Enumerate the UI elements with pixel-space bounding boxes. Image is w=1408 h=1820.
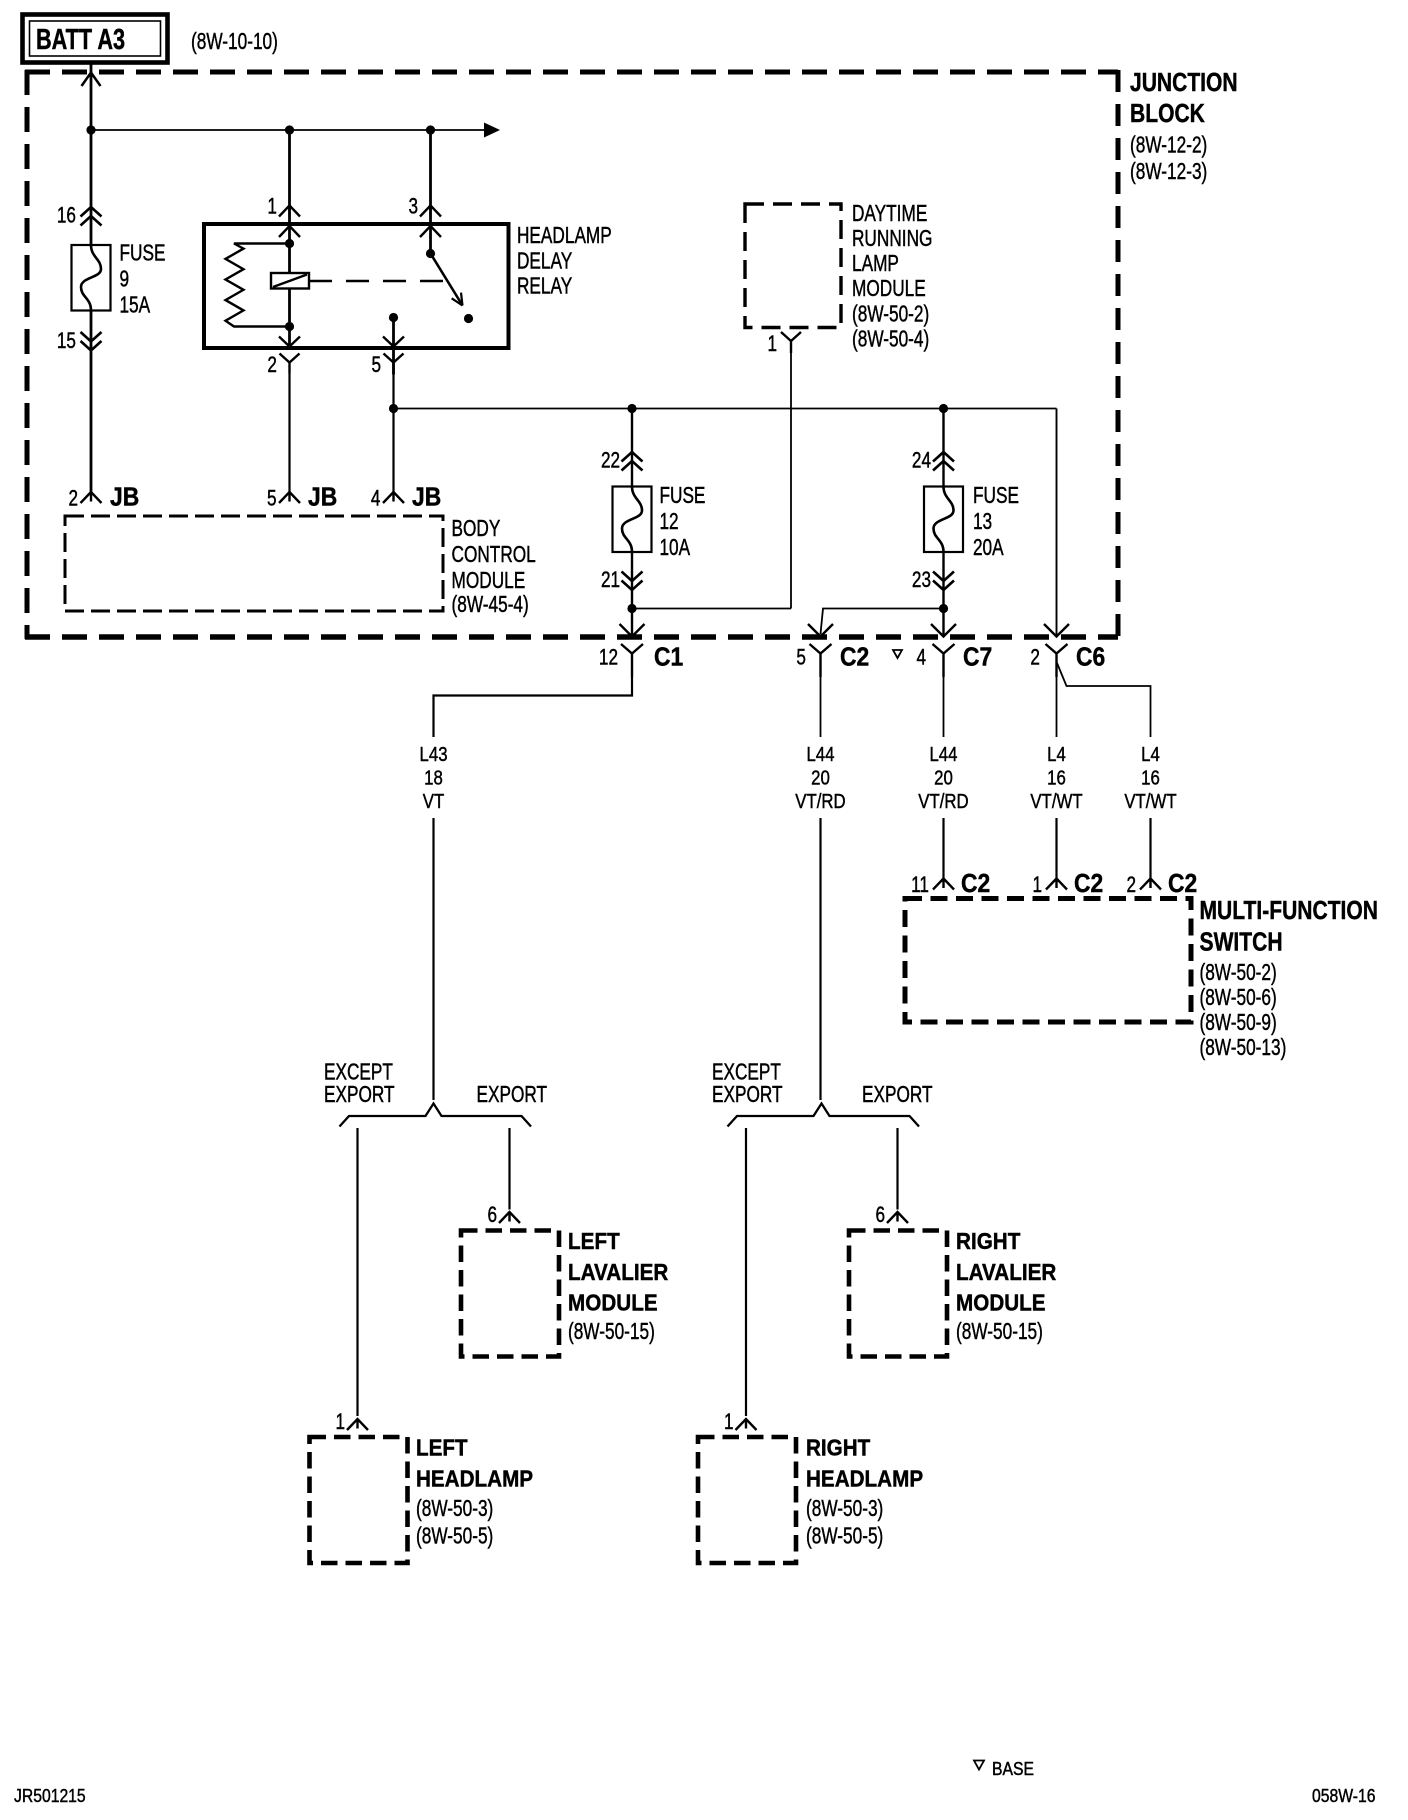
svg-text:1: 1 [335, 1410, 345, 1435]
left headlamp pin 1 connector [347, 1419, 368, 1430]
svg-text:C6: C6 [1076, 643, 1105, 672]
pin 21 label [601, 568, 620, 593]
svg-text:5: 5 [267, 487, 277, 512]
svg-text:(8W-50-13): (8W-50-13) [1199, 1036, 1286, 1061]
svg-text:SWITCH: SWITCH [1200, 929, 1283, 958]
connector grommet pin 16 [81, 207, 102, 226]
JB pin 4 label [371, 483, 441, 512]
wire export to right lavalier [896, 1128, 898, 1210]
fuse F9 [72, 245, 111, 311]
node relay common pin 5 [389, 313, 398, 322]
connector C6 pin 2 [1044, 624, 1069, 677]
svg-text:C2: C2 [1168, 870, 1197, 899]
svg-text:23: 23 [912, 568, 931, 593]
svg-text:(8W-50-5): (8W-50-5) [416, 1524, 493, 1549]
node relay coil top [285, 239, 294, 248]
svg-text:MODULE: MODULE [956, 1289, 1046, 1316]
MFS pin 1 connector [1046, 879, 1067, 890]
svg-text:DAYTIME: DAYTIME [852, 202, 927, 227]
right headlamp label [806, 1434, 923, 1549]
svg-text:LEFT: LEFT [416, 1434, 468, 1461]
svg-text:9: 9 [119, 267, 129, 292]
connector C2 pin 5 [808, 624, 833, 677]
svg-text:JB: JB [412, 483, 441, 512]
left headlamp box [310, 1437, 408, 1563]
svg-text:FUSE: FUSE [119, 241, 165, 266]
svg-text:VT: VT [423, 789, 445, 812]
left headlamp pin 1 label [335, 1410, 345, 1435]
label EXPORT right [862, 1083, 933, 1108]
wire bus to relay pin 3 [429, 130, 432, 224]
wire C2 down [820, 677, 822, 737]
svg-text:5: 5 [796, 646, 806, 671]
svg-text:12: 12 [599, 646, 618, 671]
svg-text:2: 2 [1030, 646, 1040, 671]
svg-text:RELAY: RELAY [517, 274, 573, 299]
node bus at relay pin 3 [426, 125, 435, 134]
wire DRL pin 1 to fuse 12 output [790, 353, 792, 609]
svg-text:MODULE: MODULE [568, 1289, 658, 1316]
relay coil symbol [271, 273, 309, 289]
svg-text:JUNCTION: JUNCTION [1130, 69, 1238, 98]
pin 5 label [371, 353, 381, 378]
svg-text:JB: JB [110, 483, 139, 512]
MFS pin 1 label [1032, 870, 1103, 899]
wire except-export to right headlamp [745, 1128, 747, 1416]
JB pin 4 connector [383, 492, 404, 503]
svg-text:C2: C2 [1074, 870, 1103, 899]
JB pin 5 connector [279, 492, 300, 503]
fuse 12 value label [659, 484, 705, 561]
svg-text:13: 13 [973, 510, 992, 535]
wire VT/RD to MFS pin 11 [942, 818, 944, 879]
svg-text:(8W-10-10): (8W-10-10) [191, 30, 278, 55]
wire label L4 16 VT/WT right [1124, 742, 1177, 812]
svg-text:RIGHT: RIGHT [806, 1434, 871, 1461]
svg-text:(8W-12-3): (8W-12-3) [1130, 160, 1207, 185]
svg-text:RIGHT: RIGHT [956, 1228, 1021, 1255]
svg-text:MODULE: MODULE [452, 569, 526, 594]
svg-text:MODULE: MODULE [852, 277, 926, 302]
wire fuse 13 to node [942, 552, 944, 637]
wire label L4 16 VT/WT left [1030, 742, 1083, 812]
wire battery feed into junction block [82, 63, 101, 131]
right lavalier module label [956, 1228, 1056, 1345]
svg-text:16: 16 [1141, 766, 1160, 789]
sheet number JR501215 [14, 1785, 86, 1807]
right lavalier pin 6 label [875, 1203, 885, 1228]
svg-text:1: 1 [767, 332, 777, 357]
fuse 13 value label [973, 484, 1019, 561]
svg-text:4: 4 [371, 487, 381, 512]
svg-text:(8W-45-4): (8W-45-4) [452, 593, 529, 618]
svg-text:DELAY: DELAY [517, 249, 573, 274]
relay pin 5 connector [384, 354, 404, 374]
relay pin 2 connector [280, 354, 300, 374]
svg-text:(8W-50-3): (8W-50-3) [416, 1497, 493, 1522]
daytime running lamp module label [852, 202, 932, 352]
body control module label [452, 517, 536, 618]
wire VT/RD down to split [819, 818, 821, 1100]
pin 15 label [57, 329, 76, 354]
wire VT/WT to MFS pin 2 [1149, 818, 1151, 879]
relay pin 1 connector [279, 206, 300, 217]
svg-text:LAMP: LAMP [852, 252, 899, 277]
MFS pin 11 label [911, 870, 990, 899]
svg-text:VT/WT: VT/WT [1030, 789, 1083, 812]
wire C6 branch to second VT/WT [1057, 663, 1151, 737]
svg-text:LAVALIER: LAVALIER [956, 1259, 1056, 1286]
wire power bus B+ [91, 123, 500, 138]
svg-text:EXPORT: EXPORT [862, 1083, 933, 1108]
svg-text:(8W-50-4): (8W-50-4) [852, 327, 929, 352]
wire fuse 12 to node [631, 552, 633, 637]
multi-function switch label [1199, 897, 1377, 1061]
svg-text:BATT A3: BATT A3 [36, 24, 125, 56]
svg-text:12: 12 [659, 510, 678, 535]
wire fuse 9 to JB pin 2 [90, 311, 93, 493]
svg-text:EXPORT: EXPORT [324, 1083, 395, 1108]
wire feed bus to fuses 12 13 and C6 [394, 409, 1057, 637]
pin 1 label [267, 195, 277, 220]
svg-text:24: 24 [912, 449, 931, 474]
wire VT down to split [432, 818, 434, 1100]
node bus at relay pin 1 [285, 125, 294, 134]
relay pin 2 exit chevron [279, 337, 300, 347]
connector grommet pin 21 [622, 572, 643, 591]
svg-text:3: 3 [408, 195, 418, 220]
wire relay pin 2 to JB pin 5 [288, 374, 290, 493]
body control module box [65, 516, 443, 611]
svg-text:BODY: BODY [452, 517, 501, 542]
C6 label [1030, 643, 1105, 672]
svg-text:(8W-50-9): (8W-50-9) [1199, 1011, 1276, 1036]
resistor inside relay [226, 244, 290, 327]
svg-text:HEADLAMP: HEADLAMP [517, 224, 612, 249]
battery feed box BATT A3 [23, 15, 168, 63]
svg-text:C7: C7 [963, 643, 992, 672]
svg-text:L4: L4 [1141, 742, 1160, 765]
split brace left group [340, 1104, 532, 1127]
wire C1 to left branch [434, 677, 633, 737]
svg-text:16: 16 [1047, 766, 1066, 789]
svg-text:1: 1 [1032, 873, 1042, 898]
svg-text:15: 15 [57, 329, 76, 354]
svg-text:CONTROL: CONTROL [452, 543, 536, 568]
junction block dashed boundary [25, 70, 1118, 639]
node relay coil bottom [285, 322, 294, 331]
svg-text:L44: L44 [929, 742, 957, 765]
node feed at relay pin5 column [389, 404, 398, 413]
svg-text:FUSE: FUSE [973, 484, 1019, 509]
wire export to left lavalier [508, 1128, 510, 1210]
pin 16 label [57, 204, 76, 229]
wire except-export to left headlamp [356, 1128, 358, 1416]
multi-function switch box [905, 899, 1191, 1023]
C7 label with base marker [893, 643, 992, 672]
connector C7 pin 4 [931, 624, 956, 677]
svg-text:LEFT: LEFT [568, 1228, 620, 1255]
wire feed to fuse 12 [631, 409, 633, 487]
svg-text:LAVALIER: LAVALIER [568, 1259, 668, 1286]
wire C6 down [1056, 668, 1058, 737]
JB pin 2 label [68, 483, 139, 512]
relay pin 3 connector [420, 206, 441, 217]
svg-text:EXCEPT: EXCEPT [712, 1060, 781, 1085]
left headlamp label [416, 1434, 533, 1549]
JB pin 5 label [267, 483, 337, 512]
svg-text:C1: C1 [654, 643, 683, 672]
relay switch blade [431, 254, 463, 306]
left lavalier module label [568, 1228, 668, 1345]
pin 3 label [408, 195, 418, 220]
svg-text:22: 22 [601, 449, 620, 474]
node relay switch pivot [426, 249, 435, 258]
fuse 9 value label [119, 241, 165, 318]
svg-text:1: 1 [724, 1410, 734, 1435]
svg-text:L4: L4 [1047, 742, 1066, 765]
junction block label [1130, 69, 1238, 185]
node fuse 12 output [627, 604, 636, 613]
right lavalier pin 6 connector [887, 1212, 908, 1223]
MFS pin 2 connector [1140, 879, 1161, 890]
svg-text:MULTI-FUNCTION: MULTI-FUNCTION [1200, 897, 1378, 926]
svg-text:16: 16 [57, 204, 76, 229]
svg-text:RUNNING: RUNNING [852, 227, 932, 252]
connector grommet pin 24 [933, 452, 954, 471]
left lavalier module box [461, 1231, 559, 1357]
wire fuse 13 output to C2 [821, 609, 944, 635]
daytime running lamp module box [745, 204, 841, 328]
node bus at battery column [86, 125, 95, 134]
svg-text:20: 20 [934, 766, 953, 789]
connector grommet pin 23 [933, 572, 954, 591]
wire feed to fuse 13 [942, 409, 944, 487]
node feed at fuse 13 [939, 404, 948, 413]
fuse F13 [924, 487, 963, 553]
wire battery column to fuse 9 [90, 130, 93, 245]
svg-text:HEADLAMP: HEADLAMP [416, 1465, 533, 1492]
wire relay pin 5 down [383, 318, 404, 375]
svg-text:6: 6 [487, 1203, 497, 1228]
svg-text:4: 4 [916, 646, 926, 671]
node relay stationary contact [464, 314, 473, 323]
svg-text:VT/RD: VT/RD [918, 789, 968, 812]
svg-text:2: 2 [1126, 873, 1136, 898]
C1 label [599, 643, 683, 672]
svg-text:FUSE: FUSE [659, 484, 705, 509]
label EXCEPT EXPORT right [712, 1060, 783, 1107]
svg-text:(8W-50-6): (8W-50-6) [1199, 986, 1276, 1011]
svg-text:EXCEPT: EXCEPT [324, 1060, 393, 1085]
right headlamp pin 1 label [724, 1410, 734, 1435]
svg-text:6: 6 [875, 1203, 885, 1228]
svg-text:JB: JB [308, 483, 337, 512]
svg-text:BLOCK: BLOCK [1130, 100, 1205, 129]
svg-text:21: 21 [601, 568, 620, 593]
wire relay pin 5 to JB pin 4 [392, 374, 394, 493]
pin 24 label [912, 449, 931, 474]
pin 23 label [912, 568, 931, 593]
svg-text:C2: C2 [961, 870, 990, 899]
right lavalier module box [849, 1231, 947, 1357]
svg-text:18: 18 [424, 766, 443, 789]
svg-text:L43: L43 [420, 742, 448, 765]
C2 label [796, 643, 869, 672]
wire bus to relay pin 1 [288, 130, 291, 224]
right headlamp box [698, 1437, 796, 1563]
left lavalier pin 6 connector [499, 1212, 520, 1223]
svg-text:10A: 10A [659, 536, 690, 561]
svg-text:20: 20 [811, 766, 830, 789]
split brace right group [728, 1104, 920, 1127]
svg-text:2: 2 [267, 353, 277, 378]
MFS pin 11 connector [933, 879, 954, 890]
svg-text:JR501215: JR501215 [14, 1785, 86, 1807]
pin 22 label [601, 449, 620, 474]
svg-text:(8W-50-3): (8W-50-3) [806, 1497, 883, 1522]
svg-text:15A: 15A [119, 293, 150, 318]
svg-text:L44: L44 [806, 742, 834, 765]
svg-text:(8W-50-5): (8W-50-5) [806, 1524, 883, 1549]
label (8W-10-10) [191, 30, 278, 55]
MFS pin 2 label [1126, 870, 1197, 899]
relay coil wire pin 1 to pin 2 [279, 224, 300, 348]
svg-text:VT/WT: VT/WT [1124, 789, 1177, 812]
wire relay pin 3 to switch [420, 224, 441, 254]
relay box HEADLAMP DELAY RELAY [204, 224, 509, 348]
node feed at fuse 12 [627, 404, 636, 413]
svg-text:C2: C2 [840, 643, 869, 672]
DRL pin 1 label [767, 332, 777, 357]
connector C1 pin 12 [620, 624, 645, 677]
left lavalier pin 6 label [487, 1203, 497, 1228]
svg-text:(8W-50-15): (8W-50-15) [956, 1320, 1043, 1345]
svg-text:(8W-50-15): (8W-50-15) [568, 1320, 655, 1345]
connector grommet pin 15 [81, 332, 102, 351]
label EXCEPT EXPORT left [324, 1060, 395, 1107]
svg-text:1: 1 [267, 195, 277, 220]
wire label L44 20 VT/RD right [918, 742, 968, 812]
wire fuse 12 output to DRL [632, 608, 791, 610]
svg-text:(8W-50-2): (8W-50-2) [1199, 961, 1276, 986]
svg-text:5: 5 [371, 353, 381, 378]
node fuse 13 output [939, 604, 948, 613]
svg-text:(8W-50-2): (8W-50-2) [852, 302, 929, 327]
svg-text:BASE: BASE [992, 1758, 1034, 1780]
relay label [517, 224, 612, 299]
svg-text:(8W-12-2): (8W-12-2) [1130, 133, 1207, 158]
DRL pin 1 connector [781, 332, 801, 353]
wire VT/WT to MFS pin 1 [1055, 818, 1057, 879]
pin 2 label [267, 353, 277, 378]
wire label L43 18 VT [420, 742, 448, 812]
svg-text:11: 11 [911, 873, 929, 898]
relay actuation dashed link [309, 280, 446, 282]
svg-text:2: 2 [68, 487, 78, 512]
wire label L44 20 VT/RD left [795, 742, 845, 812]
wire C7 down [943, 677, 945, 737]
base variant marker [974, 1758, 1034, 1780]
fuse F12 [613, 487, 652, 553]
svg-text:20A: 20A [973, 536, 1004, 561]
sheet number 058W-16 [1312, 1785, 1375, 1807]
svg-text:VT/RD: VT/RD [795, 789, 845, 812]
JB pin 2 connector [81, 492, 102, 503]
label EXPORT left [476, 1083, 547, 1108]
svg-text:EXPORT: EXPORT [712, 1083, 783, 1108]
svg-text:HEADLAMP: HEADLAMP [806, 1465, 923, 1492]
svg-text:058W-16: 058W-16 [1312, 1785, 1375, 1807]
svg-text:EXPORT: EXPORT [476, 1083, 547, 1108]
right headlamp pin 1 connector [736, 1419, 757, 1430]
connector grommet pin 22 [622, 452, 643, 471]
